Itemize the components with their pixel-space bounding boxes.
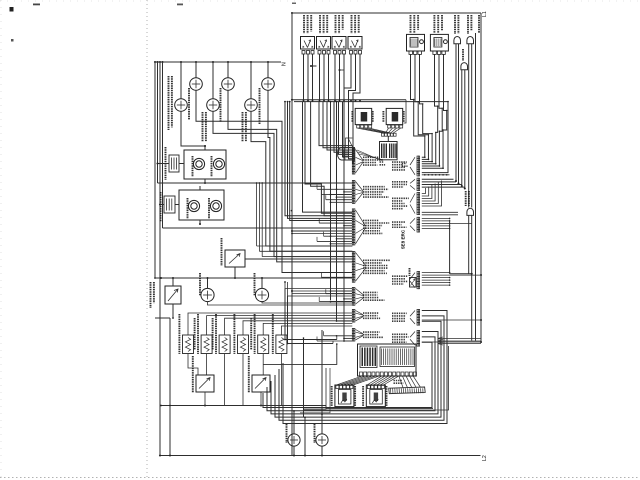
svg-text:5E8 ERC: 5E8 ERC <box>401 229 406 249</box>
svg-text:L1: L1 <box>482 11 488 17</box>
svg-text:N: N <box>282 62 288 66</box>
svg-text:L2: L2 <box>482 455 488 461</box>
